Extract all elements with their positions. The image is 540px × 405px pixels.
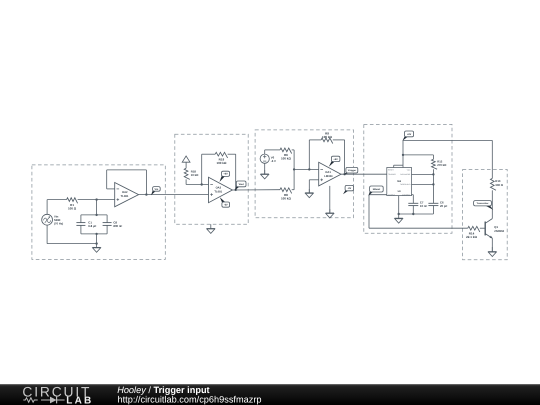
net flag Vout	[235, 181, 246, 191]
wire R14 to base	[480, 227, 485, 229]
wire summing node to inverting input	[294, 168, 319, 170]
ground (below box 2)	[207, 224, 215, 233]
resistor R9 100 kOhm (feedback)	[321, 131, 333, 143]
svg-text:TL081: TL081	[121, 195, 129, 198]
net flag +6V (opamp3 V+)	[329, 156, 340, 167]
wire emitter to ground	[491, 238, 493, 251]
wire V6 bottom to ground	[264, 163, 266, 174]
svg-text:Vtrigger: Vtrigger	[348, 169, 357, 172]
stage box 5 (output driver) dashed border	[463, 170, 508, 260]
net flag Transmitter	[474, 201, 494, 210]
svg-text:+6V: +6V	[333, 158, 338, 161]
svg-text:-6V: -6V	[224, 204, 228, 207]
svg-text:10 kΩ: 10 kΩ	[191, 173, 199, 177]
wire CONTROL to C7	[412, 195, 414, 204]
wire R18 to inverting input	[186, 179, 208, 184]
stage box 4 (555 monostable) dashed border	[364, 124, 452, 233]
svg-text:6.8 μF: 6.8 μF	[88, 224, 96, 228]
svg-text:OUTPUT: OUTPUT	[388, 193, 395, 196]
svg-text:2N3904: 2N3904	[494, 229, 504, 233]
net flag 555out	[368, 186, 383, 196]
wire source top to R1	[47, 200, 67, 215]
svg-text:OA1: OA1	[325, 171, 331, 174]
net flag +6V (opamp2 V+)	[220, 171, 230, 182]
resistor R8 100 kOhm (from Vout)	[280, 188, 292, 200]
feedback right leg wire	[228, 154, 236, 190]
svg-text:Hooley / Trigger input: Hooley / Trigger input	[117, 385, 209, 395]
ground (box 1)	[92, 244, 100, 253]
resistor R6 100 kOhm	[280, 148, 292, 161]
node: opamp2 output/feedback	[235, 189, 237, 191]
555 timer U3 body	[387, 168, 412, 197]
svg-text:RESET: RESET	[388, 169, 394, 172]
capacitor pair bottom rail	[81, 233, 107, 235]
svg-text:-6 V: -6 V	[271, 159, 276, 163]
feedback wire opamp1 (unity loop)	[107, 170, 147, 195]
resistor R19 100 kOhm (feedback)	[215, 152, 227, 165]
wire opamp2 output (net Vout) to box 3	[232, 189, 280, 191]
resistor R12 270 kOhm	[432, 159, 448, 169]
svg-text:-6V: -6V	[348, 187, 352, 190]
svg-text:THRESHOLD: THRESHOLD	[400, 183, 411, 186]
node: opamp1 output/feedback	[145, 193, 147, 195]
svg-text:(70 Hz): (70 Hz)	[54, 222, 63, 226]
svg-text:LM324: LM324	[324, 175, 333, 178]
resistor R13 330 Ohm	[490, 178, 503, 190]
resistor R1 100 Ohm	[67, 198, 78, 211]
wire 555 GND stub	[398, 196, 400, 214]
wire caps to ground rail	[96, 234, 98, 244]
svg-text:100 kΩ: 100 kΩ	[281, 196, 292, 200]
wire OUTPUT (net 555out) down and right to R14	[369, 195, 468, 229]
wire timing node down to C6	[432, 169, 434, 203]
net flag Vtrigger	[344, 167, 358, 175]
node: summing junction	[293, 168, 295, 170]
wire R13 to collector	[491, 190, 493, 218]
svg-text:Transmitter: Transmitter	[477, 202, 489, 205]
wire DISCHARGE to R12 bottom	[412, 173, 434, 175]
svg-text:100 kΩ: 100 kΩ	[216, 161, 227, 165]
op-amp OA1 LM324 (comparator)	[319, 162, 341, 186]
node: +6V / R12 branch	[402, 154, 404, 156]
wire bottom rail (GND/C7/C6)	[398, 213, 434, 215]
wire +6V down to 555 VCC	[402, 140, 404, 167]
node: R18/R19 inverting junction	[201, 183, 203, 185]
wire opamp3 V- to ground	[329, 186, 331, 213]
wire + input to ground	[309, 180, 318, 193]
svg-text:TRIGGER: TRIGGER	[388, 173, 396, 176]
svg-text:22.1 kΩ: 22.1 kΩ	[466, 235, 477, 239]
node: feedback tap	[308, 168, 310, 170]
stage box 2 (gain stage) dashed border	[175, 134, 248, 224]
svg-text:OA3: OA3	[216, 187, 222, 190]
stage box 1 (input filter) dashed border	[32, 165, 165, 260]
ground (555)	[395, 214, 403, 223]
op-amp OA2 TL081 (buffer)	[115, 183, 139, 207]
svg-text:Vin: Vin	[155, 188, 159, 191]
svg-text:20 pF: 20 pF	[440, 204, 448, 208]
net flag -6V (opamp2 V-)	[220, 197, 230, 207]
svg-text:+6V: +6V	[223, 173, 228, 176]
feedback right leg wire	[333, 140, 345, 174]
ground (V6)	[261, 170, 269, 179]
wire +6V rail to box 5	[403, 139, 492, 141]
wire R1 to opamp + input	[78, 199, 115, 201]
wire branch to R12	[403, 155, 433, 159]
wire R6 to summing node	[292, 150, 294, 190]
svg-text:100 kΩ: 100 kΩ	[322, 135, 333, 139]
wire opamp1 output to box 2 (net Vin)	[139, 194, 209, 196]
resistor R18 10 kOhm	[184, 168, 199, 179]
svg-text:OA2: OA2	[122, 191, 128, 194]
svg-text:100 Ω: 100 Ω	[68, 206, 77, 210]
capacitor pair top rail	[81, 214, 107, 216]
svg-text:CONTROL: CONTROL	[402, 193, 410, 196]
ground (opamp3 + input)	[305, 189, 313, 198]
svg-text:330 Ω: 330 Ω	[495, 183, 503, 187]
svg-text:DISCHARGE: DISCHARGE	[400, 173, 411, 176]
source V6 -6 V	[260, 154, 276, 163]
svg-text:555: 555	[397, 180, 402, 183]
svg-text:TL081: TL081	[214, 190, 222, 193]
source V1 Vin sine generator	[42, 214, 64, 225]
capacitor C1 6.8 uF	[76, 215, 96, 234]
svg-text:LAB: LAB	[66, 395, 93, 405]
svg-text:Vout: Vout	[239, 183, 244, 186]
resistor R14 22.1 kOhm (base)	[466, 226, 480, 239]
wire node down to capacitor pair	[96, 200, 98, 215]
CircuitLab logo circuit squiggle (resistor + diode)	[23, 398, 64, 402]
wire THRESHOLD to timing node	[412, 183, 434, 185]
node: output/feedback junction	[343, 173, 345, 175]
svg-text:270 kΩ: 270 kΩ	[437, 163, 447, 167]
node: R1 / C tap junction	[95, 198, 97, 200]
svg-text:555out: 555out	[373, 188, 381, 191]
transistor Q1 2N3904 NPN	[485, 219, 504, 239]
supply arrow (VCC) above R18	[182, 156, 190, 168]
wire V6 top to R6	[265, 150, 280, 154]
svg-text:+6V: +6V	[407, 133, 412, 136]
wire opamp3 output (net Vtrigger) to 555 TRIGGER	[341, 173, 387, 175]
wire +6V rail down to R13	[491, 140, 493, 178]
svg-text:10 nF: 10 nF	[420, 204, 428, 208]
wire R8 to summing node	[292, 189, 294, 191]
feedback left leg wire	[202, 154, 216, 184]
feedback left leg wire (R9)	[309, 140, 321, 170]
svg-text:800 nF: 800 nF	[113, 224, 122, 228]
op-amp OA3 TL081 (inverting amp)	[209, 177, 233, 203]
capacitor C7 10 nF	[408, 201, 427, 214]
net flag -6V (floating label)	[343, 185, 354, 194]
svg-text:100 kΩ: 100 kΩ	[281, 157, 292, 161]
capacitor C6 20 pF	[428, 201, 447, 214]
wire RESET jog to VCC line	[394, 165, 403, 167]
net flag Vin	[151, 187, 160, 196]
node: return/ground junction	[95, 242, 97, 244]
node: R12/discharge junction	[432, 173, 434, 175]
node: threshold/timing junction	[432, 183, 434, 185]
ground (emitter)	[488, 247, 496, 257]
ground (opamp3 V-)	[326, 209, 334, 218]
net flag +6V (555 supply)	[402, 131, 413, 141]
wire source bottom return	[47, 225, 97, 244]
svg-text:http://circuitlab.com/cp6h9ssf: http://circuitlab.com/cp6h9ssfmazrp	[118, 395, 262, 405]
capacitor C8 800 nF	[103, 215, 123, 234]
stage box 3 (comparator) dashed border	[255, 130, 353, 218]
